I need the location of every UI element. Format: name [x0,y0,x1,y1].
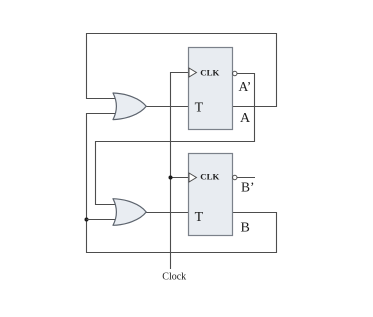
wire: clock distribution net [171,73,189,270]
or-gate G1 [113,93,146,120]
or-gate G2 [113,199,146,226]
pin: U1 clock edge triangle [189,68,196,77]
pin: U1 complement output bubble [233,71,237,75]
node: clock junction at U2 CLK branch [169,176,173,180]
svg-text:CLK: CLK [200,68,219,78]
svg-text:T: T [195,101,204,116]
pin: U2 clock edge triangle [189,173,196,182]
wire: gate G1 output to U1 T input [145,106,189,108]
node: junction of B feedback with gate G2 lower input [85,218,120,222]
wire: gate G2 output to U2 T input [145,212,189,214]
wire: A' net (from U1 complement output down and left to gate G2 upper input) [96,74,255,205]
wire: A feedback loop (A output up over the top, down left to gate G1 upper input) [87,34,277,107]
wire: B feedback (B output right, down, along bottom, up the left side to gate inputs) [87,114,277,253]
svg-text:A: A [240,111,251,126]
flip-flop U1 (T flip-flop, outputs A / A') [189,48,238,130]
flip-flop U2 (T flip-flop, outputs B / B') [189,154,238,236]
pin: U2 complement output bubble [233,175,237,179]
wire: B' stub (unconnected complement output of U2) [237,177,255,179]
svg-text:B’: B’ [241,179,255,194]
svg-text:A’: A’ [239,79,252,94]
svg-text:CLK: CLK [200,171,219,181]
svg-text:B: B [241,220,250,235]
svg-text:T: T [195,210,204,225]
svg-text:Clock: Clock [162,272,186,283]
